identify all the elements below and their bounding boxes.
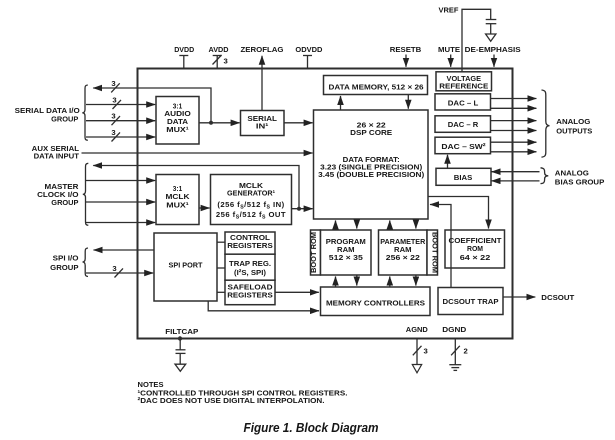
brace analog outputs bbox=[542, 90, 550, 157]
block serial in bbox=[241, 111, 285, 136]
wire parameter ram to memory controllers (up) bbox=[389, 277, 391, 288]
svg-text:DAC – L: DAC – L bbox=[448, 99, 479, 108]
svg-text:BIAS GROUP: BIAS GROUP bbox=[555, 178, 605, 187]
svg-text:2: 2 bbox=[464, 346, 468, 355]
block MCLK generator bbox=[211, 175, 292, 225]
block dcsout trap bbox=[438, 288, 503, 315]
capacitor on VREF bbox=[486, 20, 497, 34]
svg-text:REGISTERS: REGISTERS bbox=[227, 291, 273, 300]
wire SPI port to control registers bbox=[217, 241, 225, 243]
svg-text:GROUP: GROUP bbox=[50, 263, 78, 272]
wire mclk in 1 bbox=[86, 180, 155, 182]
outer block boundary bbox=[138, 69, 513, 339]
brace analog bias group bbox=[541, 168, 549, 184]
svg-text:GROUP: GROUP bbox=[51, 198, 78, 207]
block control registers bbox=[225, 232, 275, 254]
wire mclk in 3 bbox=[86, 222, 155, 224]
svg-text:SPI PORT: SPI PORT bbox=[169, 261, 203, 270]
svg-text:VREF: VREF bbox=[439, 6, 459, 15]
block trap registers bbox=[225, 254, 275, 280]
pin ODVDD bbox=[295, 45, 322, 69]
svg-text:IN¹: IN¹ bbox=[256, 121, 269, 130]
node AUX SERIAL DATA INPUT label bbox=[32, 144, 80, 161]
svg-text:DAC – SW²: DAC – SW² bbox=[441, 142, 486, 151]
wire dcsout trap to DSP bbox=[430, 205, 451, 288]
wire serial in 1 bbox=[86, 96, 155, 110]
wire program ram to memory controllers (down) bbox=[356, 275, 358, 286]
svg-text:²DAC DOES NOT USE DIGITAL INTE: ²DAC DOES NOT USE DIGITAL INTERPOLATION. bbox=[138, 396, 325, 405]
pin DVDD bbox=[174, 45, 194, 69]
block safeload registers bbox=[225, 280, 275, 305]
wire DSP to data memory (up) bbox=[340, 96, 342, 110]
wire SPI port to trap reg bbox=[217, 267, 225, 269]
rom boot rom right bbox=[427, 230, 439, 275]
pin VREF wire bbox=[439, 6, 491, 72]
svg-text:DAC – R: DAC – R bbox=[448, 120, 479, 129]
wire DSP to coefficient rom bbox=[428, 197, 489, 229]
svg-text:3: 3 bbox=[111, 112, 115, 121]
brace SPI group bbox=[83, 248, 89, 277]
svg-text:DCSOUT: DCSOUT bbox=[541, 293, 574, 302]
svg-text:(I²S, SPI): (I²S, SPI) bbox=[234, 268, 266, 277]
svg-text:MUX¹: MUX¹ bbox=[166, 125, 189, 134]
block DAC-L bbox=[435, 94, 491, 110]
pin AGND bbox=[406, 325, 428, 364]
wire DSP to program ram (down) bbox=[356, 219, 358, 229]
wire serial in 3 bbox=[86, 128, 155, 142]
svg-text:3: 3 bbox=[112, 96, 116, 105]
svg-text:BIAS: BIAS bbox=[454, 173, 473, 182]
svg-text:REFERENCE: REFERENCE bbox=[439, 82, 488, 91]
svg-text:256 fS/512 fS OUT: 256 fS/512 fS OUT bbox=[216, 210, 286, 221]
mux U2 3:1 mclk mux bbox=[156, 175, 199, 225]
wire BIAS in 1 bbox=[492, 171, 540, 173]
node analog outputs label bbox=[556, 117, 592, 136]
block DSP core bbox=[314, 110, 429, 219]
svg-text:256 × 22: 256 × 22 bbox=[386, 253, 420, 262]
svg-text:(256 fS/512 fS IN): (256 fS/512 fS IN) bbox=[217, 200, 284, 211]
brace serial group bbox=[82, 85, 88, 140]
svg-text:DSP CORE: DSP CORE bbox=[350, 128, 392, 137]
wire mclk generator to DSP bbox=[292, 207, 313, 211]
wire program ram to memory controllers (up) bbox=[335, 277, 337, 288]
wire DCSOUT output bbox=[503, 293, 575, 302]
wire DAC-SW out 2 bbox=[490, 151, 536, 153]
wire audio mux to serial in bbox=[199, 121, 240, 125]
rom boot rom left bbox=[309, 230, 321, 275]
ground AGND (analog triangle) bbox=[412, 365, 421, 373]
svg-text:FILTCAP: FILTCAP bbox=[165, 327, 198, 336]
wire DAC-R out 1 bbox=[490, 120, 536, 122]
block voltage reference bbox=[436, 72, 492, 91]
note notes block bbox=[138, 380, 348, 405]
block DAC-R bbox=[435, 116, 491, 133]
wire DAC-L out 2 bbox=[490, 107, 536, 109]
brace master clock group bbox=[83, 163, 89, 225]
wire BIAS to DAC-SW (up) bbox=[447, 155, 449, 169]
ground (VREF analog ground triangle) bbox=[486, 34, 496, 41]
pin AVDD bbox=[209, 45, 229, 69]
svg-text:GENERATOR¹: GENERATOR¹ bbox=[227, 188, 275, 197]
capacitor filtcap bbox=[176, 350, 186, 364]
svg-text:3: 3 bbox=[111, 79, 115, 88]
svg-text:ROM: ROM bbox=[467, 244, 483, 253]
svg-text:3: 3 bbox=[424, 346, 428, 355]
svg-text:64 × 22: 64 × 22 bbox=[460, 253, 491, 262]
pin RESETB bbox=[390, 45, 422, 67]
svg-text:DCSOUT TRAP: DCSOUT TRAP bbox=[443, 297, 499, 306]
node analog bias group label bbox=[555, 168, 605, 186]
wire SPI port to safeload bbox=[217, 291, 225, 293]
wire safeload to memory controllers bbox=[275, 291, 319, 293]
block DAC-SW bbox=[435, 137, 491, 154]
block data memory bbox=[324, 76, 428, 95]
svg-text:MUTE: MUTE bbox=[438, 45, 460, 54]
wire aux serial data input bbox=[82, 152, 313, 154]
svg-text:ODVDD: ODVDD bbox=[295, 45, 322, 54]
svg-text:Figure 1. Block Diagram: Figure 1. Block Diagram bbox=[244, 421, 379, 435]
wire DSP to parameter ram (up) bbox=[389, 221, 391, 231]
wire SPI out (arrow left) bbox=[94, 249, 155, 251]
node serial I/O group label bbox=[15, 106, 80, 123]
wire serial out (feedback, arrow left) bbox=[93, 79, 211, 123]
wire DAC-SW out 1 bbox=[490, 141, 536, 143]
wire DSP to program ram (up) bbox=[335, 221, 337, 231]
ground DGND (digital earth) bbox=[449, 365, 461, 371]
svg-text:OUTPUTS: OUTPUTS bbox=[556, 127, 592, 136]
wire mclk out (feedback, arrow left) bbox=[93, 166, 299, 209]
wire BIAS in 2 bbox=[492, 180, 540, 182]
svg-text:DE-EMPHASIS: DE-EMPHASIS bbox=[465, 45, 521, 54]
wire mclk mux to generator bbox=[199, 207, 210, 209]
wire data memory to DSP (down) bbox=[407, 95, 409, 109]
ground filtcap (analog triangle) bbox=[175, 364, 186, 371]
wire SPI port to memory controllers bbox=[208, 301, 319, 311]
svg-text:512 × 35: 512 × 35 bbox=[329, 253, 364, 262]
ram program ram bbox=[321, 230, 372, 275]
wire DAC-L out 1 bbox=[490, 98, 536, 100]
svg-text:AVDD: AVDD bbox=[209, 45, 229, 54]
pin ZEROFLAG bbox=[241, 45, 284, 111]
rom coefficient rom bbox=[445, 230, 505, 268]
pin MUTE bbox=[438, 45, 460, 67]
svg-text:SPI I/O: SPI I/O bbox=[53, 254, 79, 263]
pin DGND bbox=[442, 325, 467, 364]
ram parameter ram bbox=[379, 230, 428, 275]
wire DAC-R out 2 bbox=[490, 130, 536, 132]
svg-text:BOOT ROM: BOOT ROM bbox=[430, 232, 439, 273]
svg-text:ANALOG: ANALOG bbox=[555, 168, 589, 177]
svg-text:MEMORY CONTROLLERS: MEMORY CONTROLLERS bbox=[326, 298, 425, 307]
svg-text:RESETB: RESETB bbox=[390, 45, 422, 54]
mux U1 3:1 audio data mux bbox=[156, 97, 199, 145]
svg-text:3: 3 bbox=[112, 264, 116, 273]
svg-text:GROUP: GROUP bbox=[51, 114, 78, 123]
svg-text:DATA INPUT: DATA INPUT bbox=[34, 152, 80, 161]
wire mclk in 2 bbox=[86, 201, 155, 203]
svg-text:BOOT ROM: BOOT ROM bbox=[309, 232, 318, 273]
svg-text:DATA MEMORY, 512 × 26: DATA MEMORY, 512 × 26 bbox=[329, 82, 424, 91]
pin DE-EMPHASIS bbox=[465, 45, 521, 67]
wire serial in 2 bbox=[86, 112, 155, 126]
node master clock group label bbox=[37, 182, 79, 207]
wire DSP to parameter ram (down) bbox=[415, 219, 417, 229]
caption figure 1 bbox=[244, 421, 379, 435]
block BIAS bbox=[436, 168, 491, 185]
wire parameter ram to memory controllers (down) bbox=[415, 275, 417, 286]
svg-text:3: 3 bbox=[111, 128, 115, 137]
svg-text:AGND: AGND bbox=[406, 325, 428, 334]
svg-text:3: 3 bbox=[224, 57, 228, 66]
svg-text:ZEROFLAG: ZEROFLAG bbox=[241, 45, 284, 54]
block SPI port bbox=[154, 233, 217, 301]
node SPI I/O group label bbox=[50, 254, 78, 272]
wire SPI in bbox=[86, 264, 153, 278]
svg-text:MUX¹: MUX¹ bbox=[166, 200, 189, 209]
node FILTCAP bbox=[165, 327, 198, 350]
svg-text:DGND: DGND bbox=[442, 325, 466, 334]
svg-text:DVDD: DVDD bbox=[174, 45, 194, 54]
svg-text:REGISTERS: REGISTERS bbox=[227, 241, 273, 250]
svg-text:ANALOG: ANALOG bbox=[556, 117, 590, 126]
block memory controllers bbox=[321, 287, 431, 316]
wire serial in to DSP bbox=[284, 122, 313, 124]
svg-text:TRAP REG.: TRAP REG. bbox=[229, 259, 271, 268]
svg-text:3.45 (DOUBLE PRECISION): 3.45 (DOUBLE PRECISION) bbox=[318, 170, 424, 179]
